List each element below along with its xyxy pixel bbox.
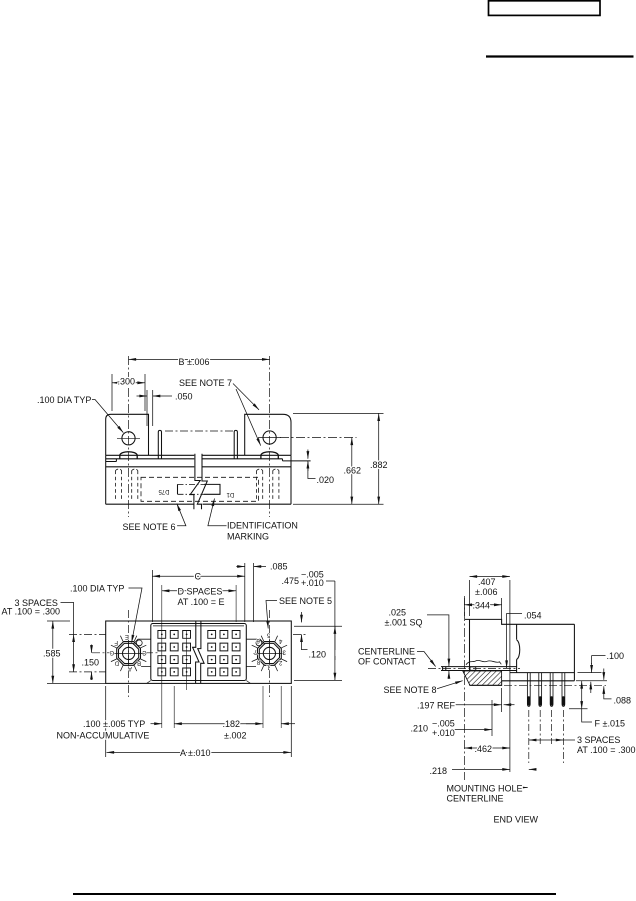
top rule xyxy=(486,55,634,57)
svg-text:.344: .344 xyxy=(473,601,491,611)
dim .085 arrows xyxy=(236,566,245,568)
leader SEE NOTE 8 xyxy=(435,681,463,690)
svg-text:E: E xyxy=(125,633,129,639)
right ear hole xyxy=(263,431,276,444)
dim C ext lines xyxy=(152,563,253,622)
left bushing dome xyxy=(120,452,137,459)
dim .585 ext lines xyxy=(47,621,106,683)
dim F +-.015 xyxy=(581,681,583,709)
hole crosshair xyxy=(113,652,145,654)
cavity wall notch right hole xyxy=(246,639,265,666)
dim .882 xyxy=(378,413,380,504)
leader .100 DIA TYP xyxy=(90,400,123,433)
bottom bevel corners xyxy=(147,681,251,684)
dim 3 SPACES label leader + dim xyxy=(61,603,74,635)
leader .025 sq xyxy=(427,615,449,666)
svg-text:.182: .182 xyxy=(223,719,241,729)
svg-text:.025: .025 xyxy=(389,608,407,618)
svg-text:F ±.015: F ±.015 xyxy=(595,719,625,729)
svg-text:AT .100 = E: AT .100 = E xyxy=(178,597,225,607)
svg-text:MARKING: MARKING xyxy=(227,532,269,542)
leader SEE NOTE 6 xyxy=(177,504,186,526)
svg-text:.882: .882 xyxy=(370,460,388,470)
dim .882 ext lines xyxy=(293,413,384,504)
svg-text:C: C xyxy=(195,572,202,582)
svg-text:B: B xyxy=(137,659,141,665)
dim 3 SPACES pins xyxy=(529,739,564,741)
svg-text:.407: .407 xyxy=(478,577,496,587)
D1 label (rotated) xyxy=(226,491,234,497)
svg-text:OF CONTACT: OF CONTACT xyxy=(358,657,416,667)
title block box xyxy=(489,1,601,16)
dim C xyxy=(152,575,244,577)
mounting hole at 128.6 xyxy=(117,642,141,666)
base upper strip lines xyxy=(106,454,291,456)
column centerlines extended xyxy=(162,585,236,728)
dim .218 xyxy=(452,768,510,770)
svg-text:.300: .300 xyxy=(118,376,136,386)
svg-text:.120: .120 xyxy=(309,650,327,660)
end view body inner left edge with bump xyxy=(517,624,520,672)
dim .150 arrows xyxy=(91,645,93,653)
dim .475 ext+line xyxy=(294,626,342,680)
hole crosshair xyxy=(253,652,285,654)
leader MOUNTING HOLE xyxy=(523,787,528,789)
bottom view inner cavity xyxy=(151,624,247,681)
polarizing tab left xyxy=(158,430,161,458)
svg-text:.100 DIA TYP: .100 DIA TYP xyxy=(70,584,124,594)
leaders SEE NOTE 7 xyxy=(233,384,259,410)
leader .054 xyxy=(507,614,522,669)
base block outline xyxy=(106,455,291,504)
identification plate dashed box xyxy=(141,477,259,501)
end view front block outline xyxy=(465,619,574,685)
dim .300 ext lines xyxy=(112,374,145,411)
svg-text:.100: .100 xyxy=(607,651,625,661)
svg-text:SEE NOTE 8: SEE NOTE 8 xyxy=(384,685,437,695)
svg-text:IDENTIFICATION: IDENTIFICATION xyxy=(227,521,298,531)
dim D SPACES xyxy=(162,590,236,592)
dim .210 xyxy=(491,700,493,736)
svg-text:D75: D75 xyxy=(158,488,170,494)
svg-text:SEE NOTE 6: SEE NOTE 6 xyxy=(123,522,176,532)
dim .300 xyxy=(112,382,145,384)
svg-text:.054: .054 xyxy=(524,611,542,621)
svg-text:+.010: +.010 xyxy=(432,728,455,738)
dim .020 arrows and elbow xyxy=(307,450,309,459)
svg-text:B ±.006: B ±.006 xyxy=(179,357,210,367)
svg-text:NON-ACCUMULATIVE: NON-ACCUMULATIVE xyxy=(57,731,150,741)
row centerline dashes left xyxy=(69,634,106,672)
svg-text:.150: .150 xyxy=(82,658,100,668)
contact grid squares xyxy=(158,631,240,676)
svg-text:SEE NOTE 7: SEE NOTE 7 xyxy=(179,378,232,388)
dim .585 xyxy=(52,621,54,683)
dim .662 ext (dash-dot from right hole) xyxy=(280,437,357,439)
dim A ext lines xyxy=(106,686,292,757)
contact tail lines xyxy=(441,667,517,671)
svg-text:AT .100 = .300: AT .100 = .300 xyxy=(577,745,635,755)
extension lines right side xyxy=(502,673,607,712)
dim B +-.006 xyxy=(129,358,270,360)
dim .100 right xyxy=(592,656,606,665)
cavity numbers right hole xyxy=(253,632,286,670)
end view body right/bottom xyxy=(502,624,575,681)
mounting hole centerline vertical dash-dot xyxy=(463,596,465,780)
hatched block xyxy=(463,671,502,685)
svg-text:+.010: +.010 xyxy=(301,578,324,588)
front view: left ear xyxy=(106,414,149,455)
ear centerlines (vertical dash-dot) xyxy=(129,356,270,517)
dim .120 xyxy=(301,612,303,622)
svg-text:D1: D1 xyxy=(226,491,234,497)
bottom view outer rect xyxy=(106,621,292,683)
svg-text:.210: .210 xyxy=(411,724,429,734)
svg-text:.100 ±.005 TYP: .100 ±.005 TYP xyxy=(83,719,145,729)
right bushing dome xyxy=(261,452,278,459)
svg-text:SEE NOTE 5: SEE NOTE 5 xyxy=(279,596,332,606)
leader CENTERLINE OF CONTACT xyxy=(417,652,436,667)
svg-text:CENTERLINE: CENTERLINE xyxy=(358,647,415,657)
cavity letters left hole xyxy=(109,633,146,671)
leader .100 DIA TYP (bottom view) xyxy=(129,588,143,643)
svg-text:C: C xyxy=(142,649,147,655)
svg-text:.462: .462 xyxy=(475,744,493,754)
cavity wall notch left hole xyxy=(133,639,151,666)
dim .662 xyxy=(351,438,353,505)
svg-text:.100 DIA TYP: .100 DIA TYP xyxy=(37,395,91,405)
center dash-dot line between tabs xyxy=(165,430,233,432)
D75 label (rotated) xyxy=(158,488,170,494)
svg-text:±.002: ±.002 xyxy=(224,731,246,741)
svg-text:.475: .475 xyxy=(282,576,300,586)
dim .050 arrows xyxy=(137,395,148,397)
front view: right ear xyxy=(245,414,291,455)
svg-text:D: D xyxy=(114,660,119,666)
svg-text:.585: .585 xyxy=(43,649,61,659)
svg-text:F: F xyxy=(114,639,118,645)
svg-text:.197 REF: .197 REF xyxy=(417,701,456,711)
svg-text:A ±.010: A ±.010 xyxy=(180,748,210,758)
dim A xyxy=(107,751,292,753)
svg-text:.662: .662 xyxy=(344,466,362,476)
dim .462 xyxy=(464,747,510,749)
pins xyxy=(527,673,564,707)
contact retention clip xyxy=(470,667,476,670)
svg-text:±.001 SQ: ±.001 SQ xyxy=(385,618,423,628)
pin centerlines dash-dot xyxy=(529,710,564,763)
svg-text:END VIEW: END VIEW xyxy=(494,815,539,825)
svg-text:MOUNTING HOLE: MOUNTING HOLE xyxy=(447,784,523,794)
svg-text:.085: .085 xyxy=(270,562,288,572)
leader IDENTIFICATION MARKING xyxy=(208,499,227,526)
dim .100 non-accumulative arrows xyxy=(151,723,162,725)
svg-text:.088: .088 xyxy=(614,696,632,706)
svg-text:CENTERLINE: CENTERLINE xyxy=(447,794,504,804)
svg-text:A: A xyxy=(128,665,132,671)
dim .197 REF xyxy=(455,704,501,706)
svg-text:.218: .218 xyxy=(430,766,448,776)
mounting hole at 269.4 xyxy=(258,642,282,666)
svg-text:3 SPACES: 3 SPACES xyxy=(577,735,620,745)
hidden bushing holes under left ear (dashed) xyxy=(116,471,138,502)
identification flag rect xyxy=(178,484,221,494)
svg-text:D SPACES: D SPACES xyxy=(178,587,223,597)
svg-text:±.006: ±.006 xyxy=(475,587,497,597)
contact centerline horizontal dash-dot xyxy=(428,668,520,670)
hole centerlines dash-dot xyxy=(129,610,270,697)
svg-text:G: G xyxy=(109,649,114,655)
dim .050 ext lines xyxy=(147,390,153,426)
dim .407 ext + line xyxy=(470,580,510,772)
svg-text:.020: .020 xyxy=(317,475,335,485)
break lines bottom view xyxy=(193,621,199,683)
dim .182 arrows xyxy=(246,723,263,725)
leader SEE NOTE 5 xyxy=(266,601,277,629)
svg-text:AT .100 = .300: AT .100 = .300 xyxy=(2,607,60,617)
lower centerline dash-dot right xyxy=(504,684,606,686)
wavy potting line (see note 8 area) xyxy=(466,660,501,665)
polarizing tab right xyxy=(234,430,237,458)
bottom rule xyxy=(73,893,556,895)
svg-text:.050: .050 xyxy=(175,392,193,402)
left ear hole xyxy=(122,432,135,445)
dim .088 right xyxy=(603,669,605,680)
dim .344 ext xyxy=(464,598,501,619)
break lines front view xyxy=(190,454,200,509)
